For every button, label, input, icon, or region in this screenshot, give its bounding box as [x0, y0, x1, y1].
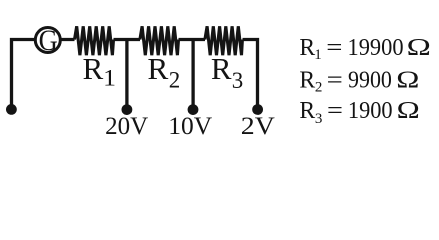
value label R1 = 19900 Ohm	[299, 33, 430, 63]
value label R2 = 9900 Ohm	[299, 65, 419, 95]
svg-text:R: R	[299, 97, 316, 123]
svg-text:Ω: Ω	[396, 66, 419, 93]
wire right corner (top rail from R3 + right vertical)	[243, 40, 258, 107]
svg-text:R: R	[299, 67, 316, 93]
svg-text:=: =	[327, 96, 343, 124]
svg-text:2V: 2V	[241, 112, 275, 140]
wire left corner (vertical + top rail to R1)	[12, 40, 75, 107]
svg-text:G: G	[39, 25, 58, 58]
svg-text:1: 1	[103, 66, 116, 91]
node terminal 10V	[188, 104, 199, 115]
svg-text:2: 2	[315, 79, 323, 95]
svg-text:2: 2	[169, 67, 181, 92]
svg-text:=: =	[327, 65, 343, 93]
label R2	[147, 51, 180, 92]
svg-text:3: 3	[315, 111, 323, 127]
galvanometer G	[35, 25, 60, 58]
svg-text:1900: 1900	[348, 97, 393, 124]
node terminal 20V	[122, 104, 133, 115]
label 10V	[168, 112, 212, 140]
label 2V	[241, 112, 275, 140]
svg-text:10V: 10V	[168, 112, 212, 140]
resistor R3	[205, 26, 243, 55]
svg-text:R: R	[83, 51, 104, 86]
resistor R1	[75, 26, 114, 55]
wire top rail R1 to R2	[114, 38, 141, 41]
resistor R2	[140, 26, 179, 55]
svg-text:20V: 20V	[105, 113, 148, 140]
wire top rail R2 to R3	[179, 38, 206, 41]
wire junction 20V vertical	[125, 40, 128, 107]
label R3	[211, 51, 243, 93]
svg-text:1: 1	[314, 47, 322, 63]
svg-text:3: 3	[232, 68, 244, 93]
svg-text:Ω: Ω	[397, 97, 420, 124]
wire junction 10V vertical	[191, 40, 194, 107]
svg-text:Ω: Ω	[407, 34, 431, 61]
svg-text:R: R	[147, 51, 168, 86]
svg-text:9900: 9900	[348, 66, 392, 93]
label R1	[83, 51, 116, 91]
node terminal left	[6, 104, 17, 115]
svg-text:19900: 19900	[348, 34, 404, 61]
svg-text:R: R	[211, 51, 232, 86]
node terminal 2V	[252, 104, 263, 115]
value label R3 = 1900 Ohm	[299, 96, 419, 127]
svg-text:=: =	[326, 33, 342, 61]
